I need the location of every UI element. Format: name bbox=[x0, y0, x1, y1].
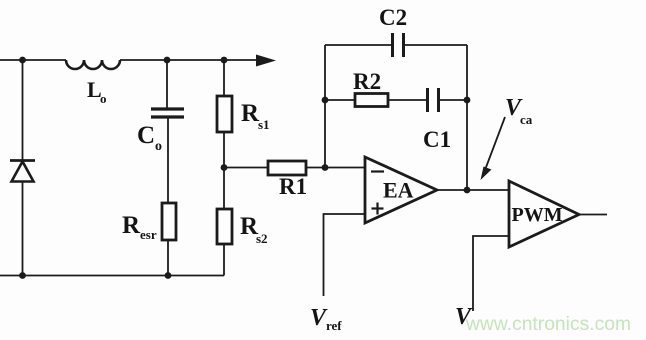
svg-text:EA: EA bbox=[383, 178, 414, 203]
comparator PWM bbox=[509, 181, 579, 247]
node: Co top junction bbox=[164, 57, 171, 64]
wire: Co top lead bbox=[166, 60, 168, 108]
svg-text:www.cntronics.com: www.cntronics.com bbox=[465, 314, 631, 335]
op-amp EA bbox=[365, 157, 437, 223]
node: divider tap bbox=[221, 164, 228, 171]
wire: diode branch vertical bbox=[22, 60, 24, 276]
svg-text:C: C bbox=[137, 122, 155, 149]
capacitor Co bbox=[151, 109, 184, 117]
wire: Rs2 to rail bbox=[223, 244, 225, 276]
node: Resr to rail junction bbox=[165, 272, 172, 279]
wire: C2 left bbox=[325, 44, 392, 46]
wire: C2 right bbox=[404, 44, 467, 46]
inductor Lo bbox=[66, 60, 120, 69]
svg-text:ca: ca bbox=[520, 112, 533, 127]
wire: bottom rail bbox=[0, 275, 224, 277]
node: inverting input bbox=[322, 164, 329, 171]
output arrow bbox=[256, 55, 276, 67]
wire: node to R2 bbox=[325, 99, 355, 101]
svg-text:esr: esr bbox=[140, 227, 157, 242]
EA inverting marker bbox=[371, 170, 384, 172]
wire: inductor to output arrow bbox=[120, 59, 259, 61]
wire: R2 to C1 bbox=[388, 99, 427, 101]
wire: Rs1 top lead bbox=[223, 60, 225, 96]
svg-text:R1: R1 bbox=[279, 174, 307, 199]
svg-text:PWM: PWM bbox=[512, 204, 563, 226]
resistor Rs2 bbox=[217, 209, 232, 244]
node: R2 branch junction bbox=[322, 97, 329, 104]
wire: tap to R1 bbox=[224, 167, 268, 169]
EA non-inverting marker bbox=[372, 203, 384, 215]
node: switch node junction bbox=[19, 57, 26, 64]
wire: EA non-inverting input to Vref bbox=[324, 214, 366, 296]
wire: Co to Resr bbox=[167, 118, 169, 203]
wire: C1 to right vertical bbox=[439, 99, 467, 101]
wire: PWM ramp input bbox=[473, 236, 509, 311]
wire: Rs1 to tap node bbox=[223, 132, 225, 168]
svg-text:s1: s1 bbox=[258, 117, 270, 132]
node: Rs1 top junction bbox=[221, 57, 228, 64]
svg-text:C2: C2 bbox=[379, 5, 407, 30]
node: Vca node bbox=[464, 187, 471, 194]
svg-text:R2: R2 bbox=[353, 69, 381, 94]
wire: R1 to EA inverting input bbox=[306, 167, 365, 169]
resistor R1 bbox=[268, 161, 306, 175]
resistor Rs1 bbox=[217, 96, 232, 132]
svg-text:o: o bbox=[155, 139, 162, 154]
svg-text:s2: s2 bbox=[256, 231, 268, 246]
wire: PWM output bbox=[579, 214, 607, 216]
capacitor C2 bbox=[393, 33, 404, 57]
svg-text:C1: C1 bbox=[423, 127, 451, 152]
svg-text:ref: ref bbox=[326, 318, 342, 333]
resistor R2 bbox=[355, 94, 388, 107]
wire: feedback left vertical bbox=[324, 45, 326, 168]
resistor Resr bbox=[162, 203, 176, 240]
svg-text:o: o bbox=[100, 91, 107, 106]
wire: tap to Rs2 bbox=[223, 168, 225, 211]
wire: input to inductor bbox=[0, 59, 66, 61]
diode D bbox=[10, 161, 35, 182]
node: feedback right junction bbox=[464, 97, 471, 104]
wire: Resr to rail bbox=[167, 240, 169, 276]
svg-text:R: R bbox=[122, 212, 141, 239]
wire: feedback right vertical bbox=[466, 45, 468, 190]
arrow pointing to Vca node bbox=[481, 117, 506, 180]
node: diode to rail junction bbox=[19, 272, 26, 279]
wire: EA output bbox=[437, 189, 509, 191]
capacitor C1 bbox=[428, 88, 439, 112]
